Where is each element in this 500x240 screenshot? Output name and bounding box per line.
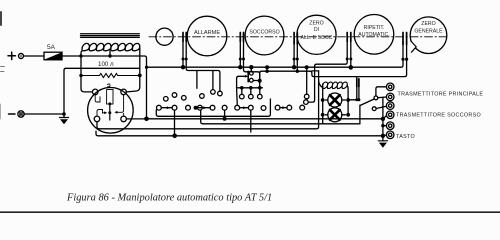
svg-text:ALLARME: ALLARME	[194, 30, 220, 36]
node big	[238, 65, 242, 69]
upper contact points scattered	[164, 90, 216, 102]
terminal T6	[386, 131, 394, 139]
cam disc ZERO GENERALE	[408, 17, 447, 54]
shaft dash-dot line	[149, 36, 447, 38]
lamp LP2	[321, 108, 350, 122]
svg-text:5A: 5A	[47, 44, 56, 51]
tube inner armature	[107, 84, 113, 120]
terminal T1	[386, 83, 394, 91]
svg-text:TASTO: TASTO	[396, 134, 415, 140]
wire left riser to 100-ohm line	[64, 68, 140, 114]
lamp LP1	[321, 93, 350, 107]
node	[172, 134, 177, 139]
svg-text:ZERO: ZERO	[421, 21, 435, 27]
contact point	[248, 105, 253, 110]
wire cam1 left drop	[182, 42, 184, 68]
node big	[292, 65, 296, 69]
node big	[181, 65, 185, 69]
wire cam4 right drop	[350, 42, 352, 68]
ground vertical at terminals	[382, 98, 384, 141]
wire stub to relay riser	[312, 70, 319, 72]
svg-text:GENERALE: GENERALE	[414, 29, 443, 35]
node	[223, 117, 227, 121]
cam follower contact 1	[183, 33, 186, 42]
node	[242, 58, 245, 61]
node	[405, 58, 408, 61]
terminal T5	[386, 122, 394, 130]
wire T2 lead	[378, 96, 387, 99]
wire vertical from lower row to LB5	[174, 110, 176, 136]
node	[401, 58, 404, 61]
wire pivot2 to T4	[376, 106, 386, 108]
node	[239, 58, 242, 61]
cam disc ALLARME	[187, 16, 227, 56]
wire lamp left vertical	[322, 84, 324, 115]
node	[381, 124, 384, 127]
long line LB3	[203, 123, 360, 125]
wire vertical 200.7	[201, 110, 203, 124]
tube V1 envelope	[88, 88, 134, 134]
terminal T2	[386, 93, 394, 101]
lower contact row	[157, 105, 305, 110]
cam disc SOCCORSO	[245, 16, 284, 55]
switch arm 1	[360, 96, 378, 105]
photo edge artifacts	[0, 211, 500, 213]
node	[145, 66, 148, 69]
wire T1 lead	[376, 87, 387, 96]
cam disc RIPETIT. AUTOMATIC.	[354, 15, 394, 55]
long line LB4	[99, 71, 319, 129]
node	[62, 112, 66, 116]
node on bus	[305, 65, 309, 69]
node	[182, 58, 185, 61]
wire cam3 right drop	[296, 42, 298, 72]
wire cam5 right drop joins second bus	[406, 42, 408, 60]
tube inner brackets	[95, 95, 123, 116]
wire lamp right vertical	[347, 98, 349, 115]
wire BL terminal down	[97, 122, 99, 129]
minus terminal	[9, 111, 25, 117]
fuse F1 5A	[44, 44, 62, 60]
wire lamp2 left to LB3	[322, 115, 324, 124]
wire center tap	[109, 51, 111, 56]
plus terminal	[8, 52, 24, 59]
svg-text:TRASMETTITORE PRINCIPALE: TRASMETTITORE PRINCIPALE	[398, 92, 484, 98]
terminal T3	[386, 102, 394, 110]
wire stubs to terminals	[383, 116, 387, 136]
contact point	[218, 91, 223, 96]
node	[108, 54, 111, 57]
node	[296, 70, 299, 73]
svg-text:TRASMETTITORE SOCCORSO: TRASMETTITORE SOCCORSO	[396, 113, 481, 119]
inductor L1 winding	[82, 43, 140, 50]
wire cam3 left drop	[293, 42, 295, 68]
contact point	[304, 94, 309, 99]
wire right coil end down	[126, 48, 139, 92]
node	[349, 58, 352, 61]
wire cam2 right drop	[244, 42, 260, 81]
wire lamp line to contact	[348, 99, 359, 101]
wire	[62, 56, 147, 117]
wire cam1 right drop to bracket	[186, 42, 220, 92]
node	[265, 70, 268, 73]
svg-text:ZERO: ZERO	[309, 21, 323, 27]
cam follower contact 4	[347, 33, 351, 42]
node	[79, 54, 82, 57]
bus W2	[260, 59, 407, 80]
svg-text:100 л: 100 л	[98, 61, 114, 68]
wire cam4 left drop to relay coil	[308, 42, 347, 103]
node	[79, 74, 82, 77]
wire left coil end down	[81, 51, 92, 92]
wire vertical from bus to contact	[306, 67, 308, 94]
node	[185, 58, 188, 61]
switch pivot 2	[372, 107, 376, 111]
changeover contact on bus	[239, 65, 262, 83]
cam follower contact 2	[240, 33, 243, 42]
tube terminals	[92, 89, 126, 122]
contact point	[304, 100, 309, 105]
transformer core	[81, 34, 140, 38]
svg-text:DI: DI	[314, 27, 319, 33]
wire drop from moving contact	[250, 110, 252, 132]
node feed	[144, 117, 149, 122]
wire cam2 left drop	[239, 42, 241, 68]
relay K1 coil	[319, 80, 349, 97]
node	[381, 134, 385, 138]
wire	[24, 113, 64, 115]
ground	[60, 114, 69, 124]
svg-text:SOCCORSO: SOCCORSO	[249, 29, 279, 35]
wire	[24, 55, 45, 57]
cam disc ZERO DI ALL. E SOCC.	[297, 15, 336, 54]
relay contact bars	[355, 77, 360, 102]
terminal T4	[386, 111, 394, 119]
node	[138, 74, 142, 78]
cam follower contact 5	[403, 33, 407, 45]
svg-text:Figura 86 - Manipolatore autom: Figura 86 - Manipolatore automatico tipo…	[66, 192, 272, 203]
short line LB1	[156, 99, 270, 116]
cam follower contact 3	[294, 33, 297, 45]
svg-text:RIPETIT.: RIPETIT.	[364, 25, 385, 31]
node	[296, 58, 299, 61]
node big	[349, 65, 354, 70]
wire bracket legs	[196, 71, 198, 89]
ground at terminals	[378, 141, 387, 148]
wire BR terminal to feed node	[126, 118, 146, 120]
node	[346, 58, 349, 61]
contact dots row	[237, 83, 263, 90]
wire arm bottom to LB3	[359, 105, 361, 124]
wire cam5 left drop joins main bus	[402, 42, 404, 60]
long line LB5 armature line	[96, 131, 383, 136]
bus B1	[147, 59, 404, 67]
wire vertical at 267	[266, 67, 268, 71]
long line LB2	[147, 118, 383, 120]
contact point	[235, 105, 240, 110]
svg-text:AUTOMATIC.: AUTOMATIC.	[358, 32, 390, 38]
coupling circle	[156, 28, 173, 45]
wire arrow lead down to contact row	[237, 76, 239, 88]
node	[381, 117, 385, 121]
wire vertical 219.9	[224, 110, 226, 119]
resistor R1 100 ohm	[81, 61, 140, 78]
contact points row	[240, 88, 263, 99]
svg-text:ALL. E SOCC: ALL. E SOCC	[300, 35, 332, 41]
node	[293, 58, 296, 61]
wire arrow to moving contact	[240, 107, 249, 109]
node	[265, 65, 269, 69]
